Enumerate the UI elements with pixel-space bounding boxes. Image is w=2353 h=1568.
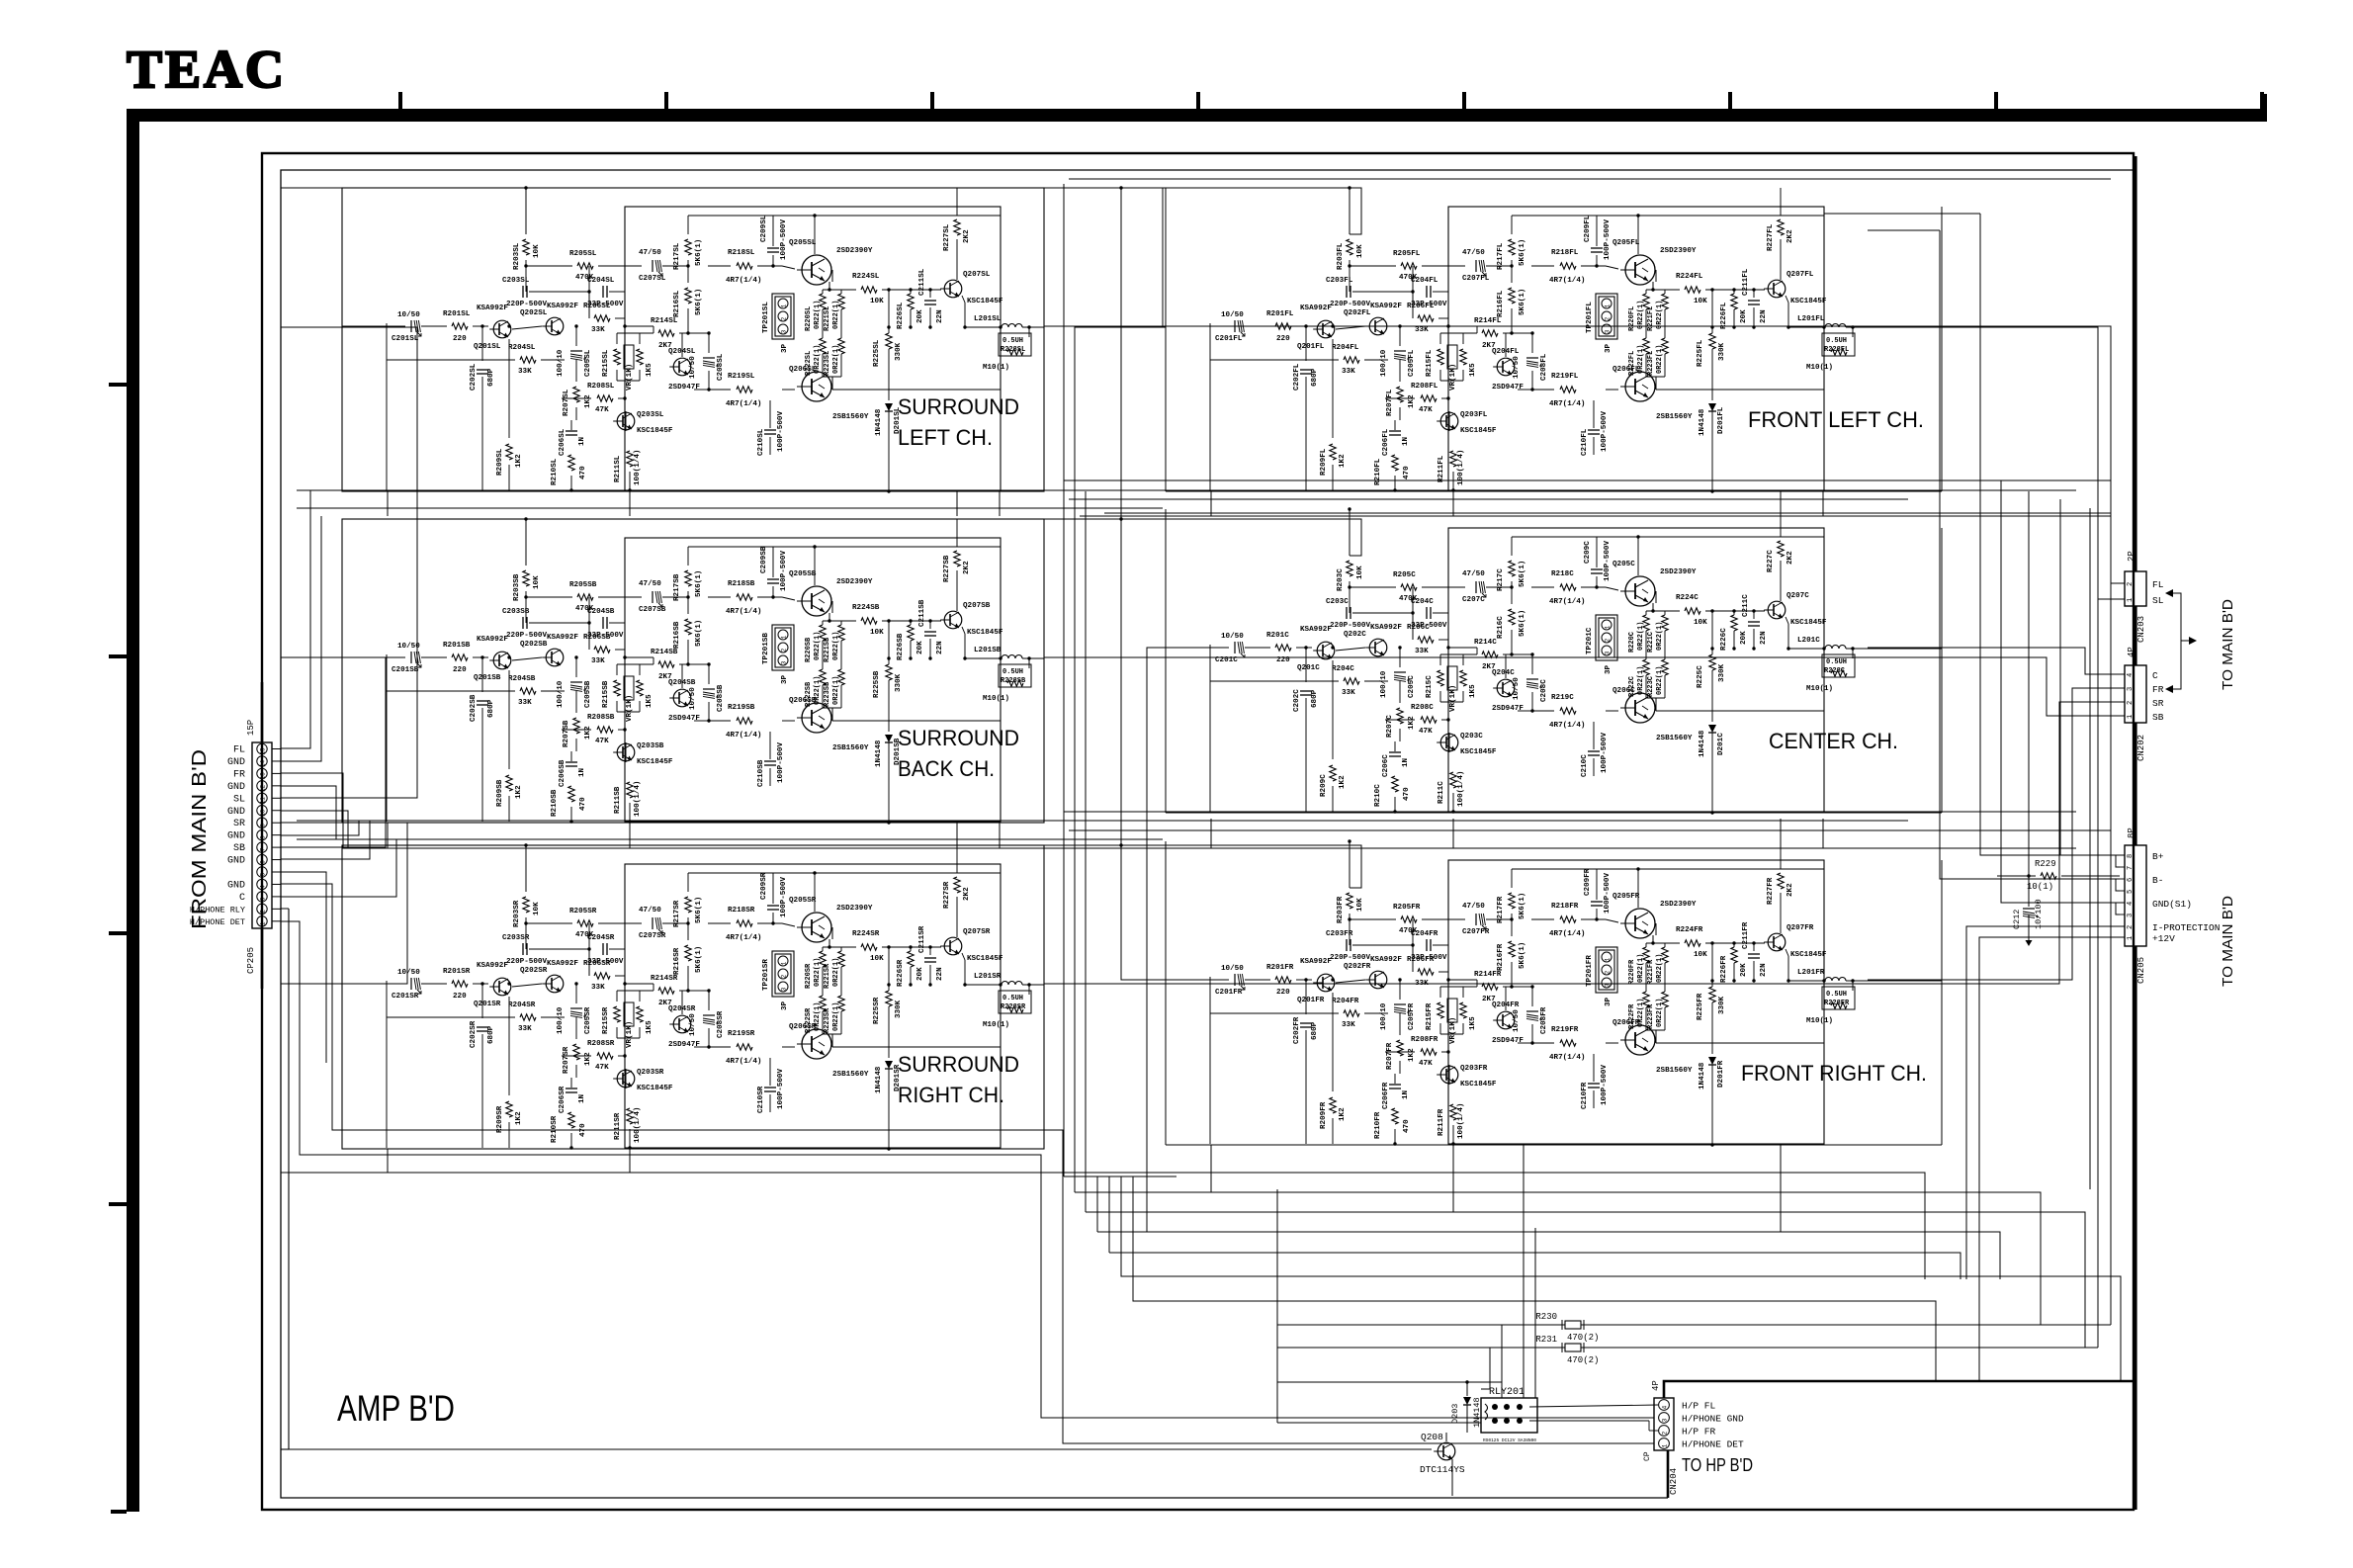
- svg-text:4R7(1/4): 4R7(1/4): [1549, 1054, 1585, 1062]
- svg-text:C211FL: C211FL: [1742, 268, 1750, 296]
- svg-text:KSA992F: KSA992F: [1300, 305, 1332, 312]
- svg-text:20K: 20K: [1740, 631, 1748, 645]
- svg-text:R208FL: R208FL: [1411, 383, 1438, 391]
- svg-text:C203SL: C203SL: [502, 277, 530, 285]
- svg-text:R224SB: R224SB: [852, 604, 880, 612]
- svg-text:GND: GND: [227, 782, 245, 793]
- svg-text:0R22(1): 0R22(1): [1656, 954, 1664, 983]
- svg-text:2SB1560Y: 2SB1560Y: [832, 744, 869, 752]
- svg-text:R209FR: R209FR: [1320, 1101, 1328, 1129]
- svg-text:1K2: 1K2: [1408, 716, 1416, 730]
- svg-text:R227FL: R227FL: [1767, 223, 1775, 251]
- svg-text:R207SL: R207SL: [563, 389, 570, 416]
- svg-text:5K6(1): 5K6(1): [1519, 239, 1526, 266]
- svg-text:10/50: 10/50: [1221, 965, 1244, 973]
- svg-text:2P: 2P: [2127, 551, 2136, 562]
- svg-text:VR(1K): VR(1K): [626, 695, 634, 722]
- svg-text:R206SR: R206SR: [583, 960, 611, 968]
- svg-text:4P: 4P: [1651, 1380, 1661, 1391]
- svg-text:330K: 330K: [895, 342, 903, 361]
- svg-text:CN205: CN205: [2136, 957, 2146, 984]
- svg-text:CN203: CN203: [2136, 616, 2146, 643]
- svg-text:2: 2: [1605, 638, 1612, 642]
- svg-text:SB: SB: [233, 843, 245, 854]
- svg-text:2: 2: [1605, 970, 1612, 974]
- svg-text:20K: 20K: [916, 309, 924, 323]
- svg-text:220P-500V: 220P-500V: [1330, 954, 1370, 962]
- svg-text:10: 10: [260, 809, 267, 817]
- svg-text:R201C: R201C: [1266, 632, 1289, 640]
- svg-text:1N4148: 1N4148: [1699, 1062, 1706, 1089]
- svg-text:10K: 10K: [1356, 244, 1364, 258]
- svg-text:SURROUND: SURROUND: [898, 394, 1019, 419]
- svg-text:SURROUND: SURROUND: [898, 1052, 1019, 1077]
- svg-text:2SB1560Y: 2SB1560Y: [832, 413, 869, 421]
- svg-text:C202FR: C202FR: [1293, 1016, 1301, 1044]
- svg-text:TP201FL: TP201FL: [1586, 302, 1594, 333]
- svg-text:Q202C: Q202C: [1344, 631, 1366, 639]
- svg-text:220P-500V: 220P-500V: [1330, 622, 1370, 630]
- svg-text:1K2: 1K2: [1339, 1107, 1347, 1121]
- svg-text:GND: GND: [227, 831, 245, 842]
- svg-text:100P-500V: 100P-500V: [1601, 1065, 1609, 1105]
- svg-text:Q205C: Q205C: [1612, 561, 1635, 568]
- svg-text:4: 4: [1662, 1405, 1669, 1409]
- svg-text:R223FR: R223FR: [1647, 1003, 1655, 1029]
- svg-text:22N: 22N: [936, 641, 944, 654]
- svg-text:0.5UH: 0.5UH: [1826, 991, 1847, 999]
- svg-text:R211C: R211C: [1438, 781, 1445, 804]
- svg-text:KSC1845F: KSC1845F: [1790, 298, 1827, 305]
- svg-text:1: 1: [2127, 715, 2135, 719]
- svg-text:R203SB: R203SB: [513, 573, 521, 601]
- svg-text:R207SR: R207SR: [563, 1046, 570, 1074]
- svg-text:470: 470: [1403, 787, 1411, 801]
- svg-text:1K2: 1K2: [1339, 454, 1347, 468]
- svg-text:C201SL: C201SL: [392, 335, 419, 343]
- svg-text:C208SR: C208SR: [717, 1010, 725, 1038]
- svg-text:Q202SL: Q202SL: [520, 309, 548, 317]
- svg-text:R217C: R217C: [1497, 568, 1505, 591]
- svg-text:5K6(1): 5K6(1): [695, 570, 703, 597]
- svg-text:KSA992F: KSA992F: [1300, 626, 1332, 634]
- svg-text:220P-500V: 220P-500V: [506, 301, 547, 308]
- svg-text:AMP B'D: AMP B'D: [337, 1388, 455, 1429]
- svg-text:4R7(1/4): 4R7(1/4): [1549, 930, 1585, 938]
- svg-text:C208SB: C208SB: [717, 684, 725, 712]
- svg-text:2SD2390Y: 2SD2390Y: [1660, 247, 1697, 255]
- svg-text:47K: 47K: [1419, 406, 1433, 414]
- svg-text:D201FL: D201FL: [1717, 406, 1725, 434]
- svg-text:R220FR: R220FR: [1628, 959, 1636, 985]
- svg-text:5K6(1): 5K6(1): [1519, 893, 1526, 919]
- svg-text:Q208: Q208: [1421, 1432, 1443, 1442]
- svg-text:1: 1: [781, 961, 788, 965]
- svg-text:3: 3: [1605, 329, 1612, 333]
- svg-text:4R7(1/4): 4R7(1/4): [726, 277, 761, 285]
- svg-text:470K: 470K: [575, 605, 594, 613]
- svg-text:R207FL: R207FL: [1386, 389, 1394, 416]
- svg-text:L201FR: L201FR: [1797, 969, 1825, 977]
- svg-text:R230: R230: [1535, 1312, 1557, 1322]
- svg-text:10K: 10K: [870, 955, 884, 963]
- svg-text:330K: 330K: [1718, 663, 1726, 682]
- svg-text:0R22(1): 0R22(1): [1656, 666, 1664, 695]
- svg-text:D201FR: D201FR: [1717, 1060, 1725, 1088]
- svg-text:3: 3: [781, 987, 788, 991]
- svg-text:9: 9: [260, 824, 267, 828]
- svg-text:C203FR: C203FR: [1326, 930, 1353, 938]
- svg-text:KSA992F: KSA992F: [477, 636, 508, 644]
- svg-text:R205SB: R205SB: [569, 581, 597, 589]
- svg-text:R216SL: R216SL: [673, 290, 681, 317]
- svg-text:C201FR: C201FR: [1215, 989, 1243, 997]
- svg-text:10K: 10K: [1694, 619, 1707, 627]
- svg-text:H/PHONE DET: H/PHONE DET: [1682, 1439, 1744, 1450]
- svg-text:47K: 47K: [1419, 1060, 1433, 1068]
- svg-text:0R22(1): 0R22(1): [1656, 301, 1664, 329]
- svg-text:47/50: 47/50: [1462, 570, 1485, 578]
- svg-text:TP201SB: TP201SB: [762, 633, 770, 664]
- svg-text:C203C: C203C: [1326, 598, 1349, 606]
- svg-text:R210FR: R210FR: [1374, 1111, 1382, 1139]
- svg-text:22N: 22N: [936, 309, 944, 323]
- svg-text:R223SB: R223SB: [824, 681, 831, 707]
- svg-text:Q202FR: Q202FR: [1344, 963, 1371, 971]
- svg-text:R209SL: R209SL: [496, 448, 504, 476]
- svg-text:6: 6: [260, 860, 267, 864]
- svg-text:0R22(1): 0R22(1): [832, 301, 840, 329]
- svg-text:100P-500V: 100P-500V: [777, 742, 785, 783]
- svg-text:R215FR: R215FR: [1426, 1002, 1434, 1030]
- svg-text:0R22(1): 0R22(1): [1637, 622, 1645, 651]
- svg-text:R218C: R218C: [1551, 570, 1574, 578]
- svg-text:1K2: 1K2: [584, 394, 592, 408]
- svg-text:680P: 680P: [1311, 368, 1319, 387]
- svg-text:33K: 33K: [1415, 648, 1429, 655]
- svg-text:1N: 1N: [578, 436, 586, 446]
- svg-text:100P-500V: 100P-500V: [1604, 219, 1612, 260]
- svg-text:Q203FL: Q203FL: [1460, 411, 1488, 419]
- svg-text:R227FR: R227FR: [1767, 877, 1775, 905]
- svg-text:C202FL: C202FL: [1293, 363, 1301, 391]
- svg-text:SR: SR: [233, 819, 245, 829]
- svg-text:1N4148: 1N4148: [1699, 408, 1706, 436]
- svg-text:C202C: C202C: [1293, 689, 1301, 712]
- svg-text:100(1/4): 100(1/4): [634, 1107, 642, 1143]
- svg-text:1: 1: [781, 304, 788, 307]
- svg-text:10K: 10K: [1356, 898, 1364, 912]
- svg-text:C201SB: C201SB: [392, 666, 419, 674]
- svg-text:330K: 330K: [1718, 342, 1726, 361]
- svg-text:TO MAIN B'D: TO MAIN B'D: [2220, 599, 2236, 690]
- svg-text:R208SL: R208SL: [587, 383, 615, 391]
- svg-text:R218FR: R218FR: [1551, 903, 1579, 911]
- svg-text:H/P FR: H/P FR: [1682, 1427, 1716, 1437]
- svg-text:M10(1): M10(1): [983, 695, 1009, 703]
- svg-text:I-PROTECTION: I-PROTECTION: [2152, 922, 2220, 933]
- svg-text:R218SL: R218SL: [728, 249, 755, 257]
- svg-text:33K: 33K: [1342, 689, 1355, 697]
- svg-text:1K2: 1K2: [515, 1111, 523, 1125]
- svg-text:R219SR: R219SR: [728, 1030, 755, 1038]
- svg-text:R210SL: R210SL: [551, 458, 559, 485]
- svg-text:1K2: 1K2: [584, 726, 592, 740]
- svg-text:1: 1: [1662, 1443, 1669, 1447]
- svg-text:1K5: 1K5: [1469, 363, 1477, 377]
- svg-text:R216SR: R216SR: [673, 947, 681, 975]
- svg-text:Q203C: Q203C: [1460, 733, 1483, 740]
- svg-text:R209C: R209C: [1320, 774, 1328, 797]
- svg-text:CN202: CN202: [2136, 735, 2146, 761]
- svg-text:100(1/4): 100(1/4): [1457, 1103, 1465, 1139]
- svg-text:R226SR: R226SR: [897, 959, 905, 987]
- svg-text:R220SR: R220SR: [805, 963, 813, 989]
- svg-text:20K: 20K: [1740, 963, 1748, 977]
- svg-text:5K6(1): 5K6(1): [695, 620, 703, 647]
- svg-text:R216C: R216C: [1497, 616, 1505, 639]
- svg-text:C206SR: C206SR: [559, 1086, 566, 1113]
- svg-text:1N: 1N: [578, 767, 586, 777]
- svg-text:2: 2: [260, 910, 267, 914]
- svg-text:220: 220: [453, 335, 467, 343]
- svg-text:5K6(1): 5K6(1): [1519, 610, 1526, 637]
- svg-text:KSA992F: KSA992F: [477, 962, 508, 970]
- svg-text:L201SR: L201SR: [974, 973, 1002, 981]
- svg-text:GND: GND: [227, 880, 245, 891]
- svg-text:5K6(1): 5K6(1): [695, 289, 703, 315]
- svg-text:FL: FL: [2152, 579, 2164, 590]
- svg-text:47K: 47K: [595, 406, 609, 414]
- svg-text:15: 15: [260, 747, 267, 755]
- svg-text:1: 1: [1605, 304, 1612, 307]
- svg-text:R223C: R223C: [1647, 676, 1655, 697]
- svg-text:C207SR: C207SR: [639, 932, 666, 940]
- svg-text:4: 4: [260, 885, 267, 889]
- svg-text:1N: 1N: [1402, 436, 1410, 446]
- svg-text:R208C: R208C: [1411, 704, 1434, 712]
- svg-text:R219C: R219C: [1551, 694, 1574, 702]
- svg-text:C208FR: C208FR: [1540, 1006, 1548, 1034]
- svg-text:C205SB: C205SB: [584, 680, 592, 708]
- svg-text:0R22(1): 0R22(1): [1656, 622, 1664, 651]
- svg-text:R225FR: R225FR: [1697, 993, 1704, 1020]
- svg-text:1: 1: [781, 635, 788, 639]
- svg-text:R215SL: R215SL: [602, 349, 610, 377]
- svg-text:3P: 3P: [1605, 664, 1612, 674]
- svg-text:10/50: 10/50: [689, 687, 697, 710]
- svg-text:R206C: R206C: [1407, 624, 1430, 632]
- svg-text:220P-500V: 220P-500V: [506, 958, 547, 966]
- svg-text:R214SB: R214SB: [651, 649, 678, 656]
- svg-text:4R7(1/4): 4R7(1/4): [726, 732, 761, 740]
- svg-text:0.5UH: 0.5UH: [1002, 337, 1023, 345]
- svg-text:0.5UH: 0.5UH: [1002, 668, 1023, 676]
- svg-text:15P: 15P: [246, 720, 256, 736]
- svg-text:1K5: 1K5: [1469, 1016, 1477, 1030]
- svg-text:R227SR: R227SR: [943, 881, 951, 909]
- svg-text:C206FL: C206FL: [1382, 428, 1390, 456]
- svg-text:FR: FR: [233, 769, 245, 780]
- svg-text:10K: 10K: [1694, 298, 1707, 305]
- svg-text:100/10: 100/10: [557, 1006, 565, 1034]
- svg-text:R226SB: R226SB: [897, 633, 905, 660]
- svg-text:3: 3: [2127, 914, 2135, 917]
- svg-text:4: 4: [2127, 673, 2135, 677]
- svg-text:C202SL: C202SL: [470, 363, 478, 391]
- svg-text:R205SR: R205SR: [569, 908, 597, 915]
- svg-text:0R22(1): 0R22(1): [832, 1002, 840, 1031]
- svg-text:R201FR: R201FR: [1266, 964, 1294, 972]
- svg-text:C208FL: C208FL: [1540, 353, 1548, 381]
- svg-text:KSC1845F: KSC1845F: [967, 955, 1003, 963]
- svg-text:2K2: 2K2: [963, 561, 971, 574]
- svg-text:C209SR: C209SR: [760, 872, 768, 900]
- svg-text:20K: 20K: [1740, 309, 1748, 323]
- svg-text:R205FL: R205FL: [1393, 250, 1421, 258]
- svg-text:Q206FR: Q206FR: [1612, 1019, 1640, 1027]
- svg-text:C202SB: C202SB: [470, 694, 478, 722]
- svg-text:470K: 470K: [575, 931, 594, 939]
- svg-text:M10(1): M10(1): [1806, 1017, 1833, 1025]
- svg-text:C201SR: C201SR: [392, 993, 419, 1001]
- svg-text:470: 470: [1403, 466, 1411, 479]
- svg-text:VR(1K): VR(1K): [626, 364, 634, 391]
- svg-text:Q207C: Q207C: [1787, 592, 1809, 600]
- svg-text:5: 5: [2127, 890, 2135, 894]
- svg-text:3P: 3P: [781, 343, 789, 353]
- svg-text:C209SB: C209SB: [760, 546, 768, 573]
- svg-text:R224SL: R224SL: [852, 273, 880, 281]
- svg-text:R209FL: R209FL: [1320, 448, 1328, 476]
- svg-text:220: 220: [453, 993, 467, 1001]
- svg-text:R215C: R215C: [1426, 675, 1434, 698]
- svg-text:1: 1: [1605, 625, 1612, 629]
- svg-text:1: 1: [2127, 936, 2135, 940]
- svg-text:Q203SL: Q203SL: [637, 411, 664, 419]
- svg-text:C209SL: C209SL: [760, 215, 768, 242]
- svg-text:KSC1845F: KSC1845F: [637, 1085, 673, 1092]
- svg-text:220P-500V: 220P-500V: [506, 632, 547, 640]
- svg-text:20K: 20K: [916, 641, 924, 654]
- svg-text:2SB1560Y: 2SB1560Y: [832, 1071, 869, 1079]
- svg-text:R208FR: R208FR: [1411, 1036, 1438, 1044]
- svg-text:10K: 10K: [533, 902, 541, 915]
- svg-text:C205SR: C205SR: [584, 1006, 592, 1034]
- svg-text:BACK CH.: BACK CH.: [898, 756, 995, 781]
- svg-text:C: C: [239, 893, 245, 904]
- svg-text:R210FL: R210FL: [1374, 458, 1382, 485]
- svg-text:R203SL: R203SL: [513, 242, 521, 270]
- svg-text:10/50: 10/50: [689, 356, 697, 379]
- svg-text:Q202SR: Q202SR: [520, 967, 548, 975]
- svg-text:Q207FR: Q207FR: [1787, 924, 1814, 932]
- svg-text:10/50: 10/50: [1513, 1009, 1521, 1032]
- svg-text:R226C: R226C: [1720, 628, 1728, 651]
- svg-text:R216SB: R216SB: [673, 621, 681, 649]
- svg-text:220P-500V: 220P-500V: [1330, 301, 1370, 308]
- svg-text:KSA992F: KSA992F: [1370, 624, 1402, 632]
- svg-text:R219FR: R219FR: [1551, 1026, 1579, 1034]
- svg-text:Q206SR: Q206SR: [789, 1023, 817, 1031]
- svg-text:R223SL: R223SL: [824, 351, 831, 376]
- svg-text:TEAC: TEAC: [127, 40, 287, 99]
- svg-text:2SD947F: 2SD947F: [668, 1041, 700, 1049]
- svg-text:R225C: R225C: [1697, 665, 1704, 688]
- svg-text:R207FR: R207FR: [1386, 1042, 1394, 1070]
- svg-text:0R22(1): 0R22(1): [814, 301, 822, 329]
- svg-text:R220FL: R220FL: [1628, 306, 1636, 331]
- svg-text:2SB1560Y: 2SB1560Y: [1656, 1067, 1693, 1075]
- svg-text:470: 470: [1403, 1119, 1411, 1133]
- svg-text:2K2: 2K2: [1787, 551, 1794, 565]
- svg-text:1: 1: [2127, 598, 2135, 602]
- svg-text:Q205SB: Q205SB: [789, 570, 817, 578]
- svg-text:R221C: R221C: [1647, 632, 1655, 653]
- svg-text:R206SB: R206SB: [583, 634, 611, 642]
- svg-text:Q205FR: Q205FR: [1612, 893, 1640, 901]
- svg-text:C201FL: C201FL: [1215, 335, 1243, 343]
- svg-text:2SD2390Y: 2SD2390Y: [1660, 568, 1697, 576]
- svg-text:220: 220: [453, 666, 467, 674]
- svg-text:5K6(1): 5K6(1): [1519, 942, 1526, 969]
- svg-text:GND: GND: [227, 856, 245, 867]
- svg-text:4R7(1/4): 4R7(1/4): [1549, 400, 1585, 408]
- svg-text:5K6(1): 5K6(1): [695, 946, 703, 973]
- svg-text:3P: 3P: [1605, 343, 1612, 353]
- svg-text:33K: 33K: [518, 1025, 532, 1033]
- svg-text:R231: R231: [1535, 1335, 1557, 1345]
- svg-text:47K: 47K: [1419, 728, 1433, 736]
- svg-text:SB: SB: [2152, 712, 2164, 723]
- svg-text:C208SL: C208SL: [717, 353, 725, 381]
- svg-text:R221SR: R221SR: [824, 963, 831, 989]
- svg-text:1K2: 1K2: [1408, 394, 1416, 408]
- svg-text:KSA992F: KSA992F: [547, 634, 578, 642]
- svg-text:Q206SB: Q206SB: [789, 697, 817, 705]
- svg-text:4: 4: [2127, 902, 2135, 906]
- svg-text:FRONT LEFT CH.: FRONT LEFT CH.: [1748, 407, 1924, 432]
- svg-text:0R22(1): 0R22(1): [1637, 666, 1645, 695]
- svg-text:10K: 10K: [1356, 566, 1364, 579]
- svg-text:FRONT RIGHT CH.: FRONT RIGHT CH.: [1741, 1061, 1927, 1086]
- svg-text:0R22(1): 0R22(1): [832, 958, 840, 987]
- svg-text:Q201SL: Q201SL: [474, 343, 501, 351]
- svg-text:R215SB: R215SB: [602, 680, 610, 708]
- svg-text:R205SL: R205SL: [569, 250, 597, 258]
- svg-text:10/50: 10/50: [1513, 356, 1521, 379]
- svg-text:680P: 680P: [487, 699, 495, 718]
- svg-text:TO HP B'D: TO HP B'D: [1682, 1455, 1753, 1475]
- svg-text:330K: 330K: [895, 1000, 903, 1018]
- svg-text:D201C: D201C: [1717, 733, 1725, 755]
- svg-text:KSC1845F: KSC1845F: [1460, 1081, 1497, 1089]
- svg-text:FROM MAIN B'D: FROM MAIN B'D: [189, 749, 211, 929]
- svg-text:Q205FL: Q205FL: [1612, 239, 1640, 247]
- svg-text:M10(1): M10(1): [1806, 685, 1833, 693]
- svg-text:1K5: 1K5: [646, 694, 654, 708]
- svg-text:4R7(1/4): 4R7(1/4): [1549, 722, 1585, 730]
- svg-text:RS0125 DC12V SA38N00: RS0125 DC12V SA38N00: [1483, 1437, 1536, 1443]
- svg-text:C203SB: C203SB: [502, 608, 530, 616]
- svg-text:22N: 22N: [1760, 309, 1768, 323]
- svg-text:10/50: 10/50: [397, 311, 420, 319]
- svg-text:C210SB: C210SB: [757, 759, 765, 787]
- svg-text:6: 6: [2127, 878, 2135, 882]
- svg-text:R225FL: R225FL: [1697, 339, 1704, 367]
- svg-text:R221SB: R221SB: [824, 637, 831, 662]
- svg-text:Q201SR: Q201SR: [474, 1001, 501, 1008]
